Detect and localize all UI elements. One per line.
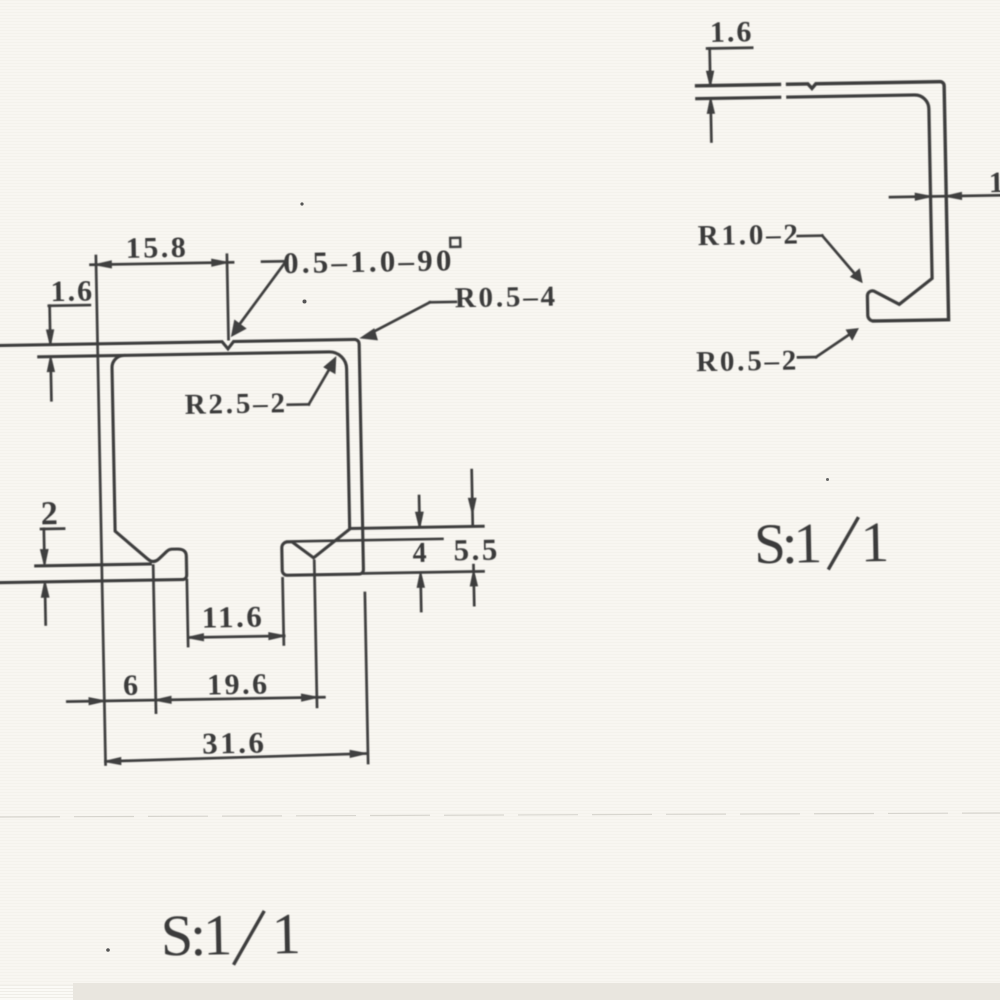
dimension 5.5 top reference line [350, 526, 484, 528]
svg-text:1.6: 1.6 [710, 15, 754, 49]
right profile inner line segment 1 [697, 97, 780, 98]
svg-text:R2.5–2: R2.5–2 [184, 387, 288, 421]
left profile outer contour [0, 339, 364, 580]
dimension 15.8 line [91, 262, 234, 264]
right scale slash [828, 519, 858, 569]
svg-text:0.5–1.0–90: 0.5–1.0–90 [283, 242, 455, 280]
dimension 2 lower shaft [44, 591, 47, 624]
dimension 31.6 right extension [365, 593, 368, 763]
dimension 5.5 lower shaft [472, 580, 475, 605]
svg-text:19.6: 19.6 [207, 668, 270, 702]
svg-text:1.: 1. [988, 166, 1000, 199]
scan band bottom [0, 0, 1, 1]
dimension 2 underline [41, 527, 64, 530]
right dimension 1.6 upper arrowhead [707, 71, 714, 85]
right profile inner line segment 2, inner wall, V-groove, foot [788, 95, 933, 323]
dimension 6 and 19.6 line [67, 697, 324, 701]
dimension 2 upper arrowhead [41, 550, 48, 565]
R2.5-2 leader bar [288, 403, 309, 406]
right dimension 1.6 underline [707, 46, 752, 49]
svg-text:1: 1 [271, 901, 301, 966]
dimension 1.6 underline [49, 304, 90, 307]
R0.5-2 leader diagonal [816, 332, 854, 357]
dimension 6 left arrowhead [89, 698, 104, 704]
dimension 1.6 lower arrowhead [47, 357, 54, 371]
chamfer leader bar [262, 260, 286, 263]
dimension 31.6 arrow right [350, 751, 365, 758]
faint scanner line across page [0, 813, 1000, 817]
chamfer leader arrowhead [232, 321, 246, 336]
dimension 4 upper shaft [418, 496, 421, 526]
dimension 31.6 arrow left [105, 758, 120, 765]
svg-text:S:1: S:1 [753, 512, 820, 576]
dimension 5.5 upper shaft [472, 470, 473, 526]
valley extension line (6/19.6 shared) [153, 566, 156, 713]
dimension 4 lower shaft [419, 582, 422, 611]
dimension 2 upper shaft [43, 529, 46, 563]
left scale slash [233, 912, 264, 963]
R0.5-4 leader arrowhead [361, 329, 376, 339]
svg-text:R1.0–2: R1.0–2 [697, 218, 801, 252]
svg-text:31.6: 31.6 [202, 725, 267, 761]
dimension 4 lower arrowhead [417, 573, 424, 588]
dimension 1.6 upper arrowhead [47, 330, 54, 344]
right dimension 1.6 upper shaft [708, 48, 711, 83]
svg-text:S:1: S:1 [160, 902, 230, 968]
dimension 19.6 right arrowhead [302, 694, 317, 700]
svg-text:4: 4 [412, 538, 427, 569]
chamfer leader diagonal [234, 261, 288, 330]
right dimension 1.6 lower shaft [709, 108, 712, 142]
svg-text:5.5: 5.5 [453, 532, 500, 568]
dimension 11.6 line [188, 636, 284, 638]
R2.5-2 leader arrowhead [324, 358, 335, 373]
R0.5-2 leader bar [798, 356, 816, 359]
right dimension 1 line [890, 195, 1000, 197]
dimension 5.5 lower tick [472, 565, 475, 571]
R1.0-2 leader diagonal [822, 235, 857, 278]
dimension 15.8 arrow right [212, 259, 227, 265]
dimension 1.6 upper arrow shaft [48, 306, 51, 343]
dimension 11.6 arrow right [269, 633, 284, 639]
dimension 11.6 arrow left [188, 634, 203, 640]
svg-text:15.8: 15.8 [125, 231, 188, 265]
dimension 15.8 extension line right at notch [227, 255, 229, 340]
paper speck 1 [300, 202, 303, 205]
right dimension 1 arrow left [915, 193, 930, 199]
right profile top outer line segment 1 [697, 84, 780, 85]
svg-text:R0.5–2: R0.5–2 [696, 345, 800, 379]
dimension 1.6 lower shaft [49, 367, 52, 400]
dimension 11.6 left extension [187, 580, 188, 646]
dimension 11.6 right extension [283, 578, 284, 644]
svg-text:2: 2 [40, 495, 58, 532]
paper speck 2 [303, 300, 307, 304]
dimension 15.8 extension line left (shared with 6 and 31.6) [96, 256, 106, 765]
dimension 15.8 arrow left [96, 261, 111, 267]
svg-text:11.6: 11.6 [201, 599, 264, 635]
dimension 6/19.6 middle arrowhead [156, 697, 171, 703]
degree square [450, 238, 460, 247]
R0.5-4 leader bar [430, 301, 456, 304]
R0.5-4 leader diagonal [365, 302, 431, 336]
left lip top surface line [36, 564, 151, 566]
right dimension 1 arrow right [946, 193, 961, 199]
paper speck 3 [826, 478, 829, 481]
right dimension 1.6 lower arrowhead [707, 99, 714, 113]
dimension 19.6 right extension [314, 561, 317, 707]
right profile top outer line segment 2 with nick and corner, outer wall, foot bottom [788, 82, 949, 323]
svg-text:R0.5–4: R0.5–4 [455, 281, 559, 315]
dimension 31.6 line [105, 754, 365, 762]
paper speck 4 [106, 948, 110, 952]
dimension 5.5 upper arrowhead [469, 499, 476, 514]
dimension 4 upper arrowhead [416, 512, 423, 527]
left profile inner-left wall, chamfer, ridge, lip right edge, lip bottom [0, 354, 187, 582]
dimension 5.5 lower arrowhead [470, 571, 477, 585]
dimension 2 lower arrowhead [41, 582, 48, 597]
R2.5-2 leader diagonal [308, 364, 333, 404]
svg-text:6: 6 [123, 669, 139, 702]
svg-text:1.6: 1.6 [50, 274, 94, 308]
svg-text:1: 1 [860, 511, 890, 574]
R1.0-2 leader bar [798, 234, 823, 237]
dimension 4 top reference line [287, 539, 442, 542]
R0.5-2 leader arrowhead [847, 329, 858, 339]
R1.0-2 leader arrowhead [851, 270, 862, 282]
right lip bottom reference extension [364, 571, 484, 573]
